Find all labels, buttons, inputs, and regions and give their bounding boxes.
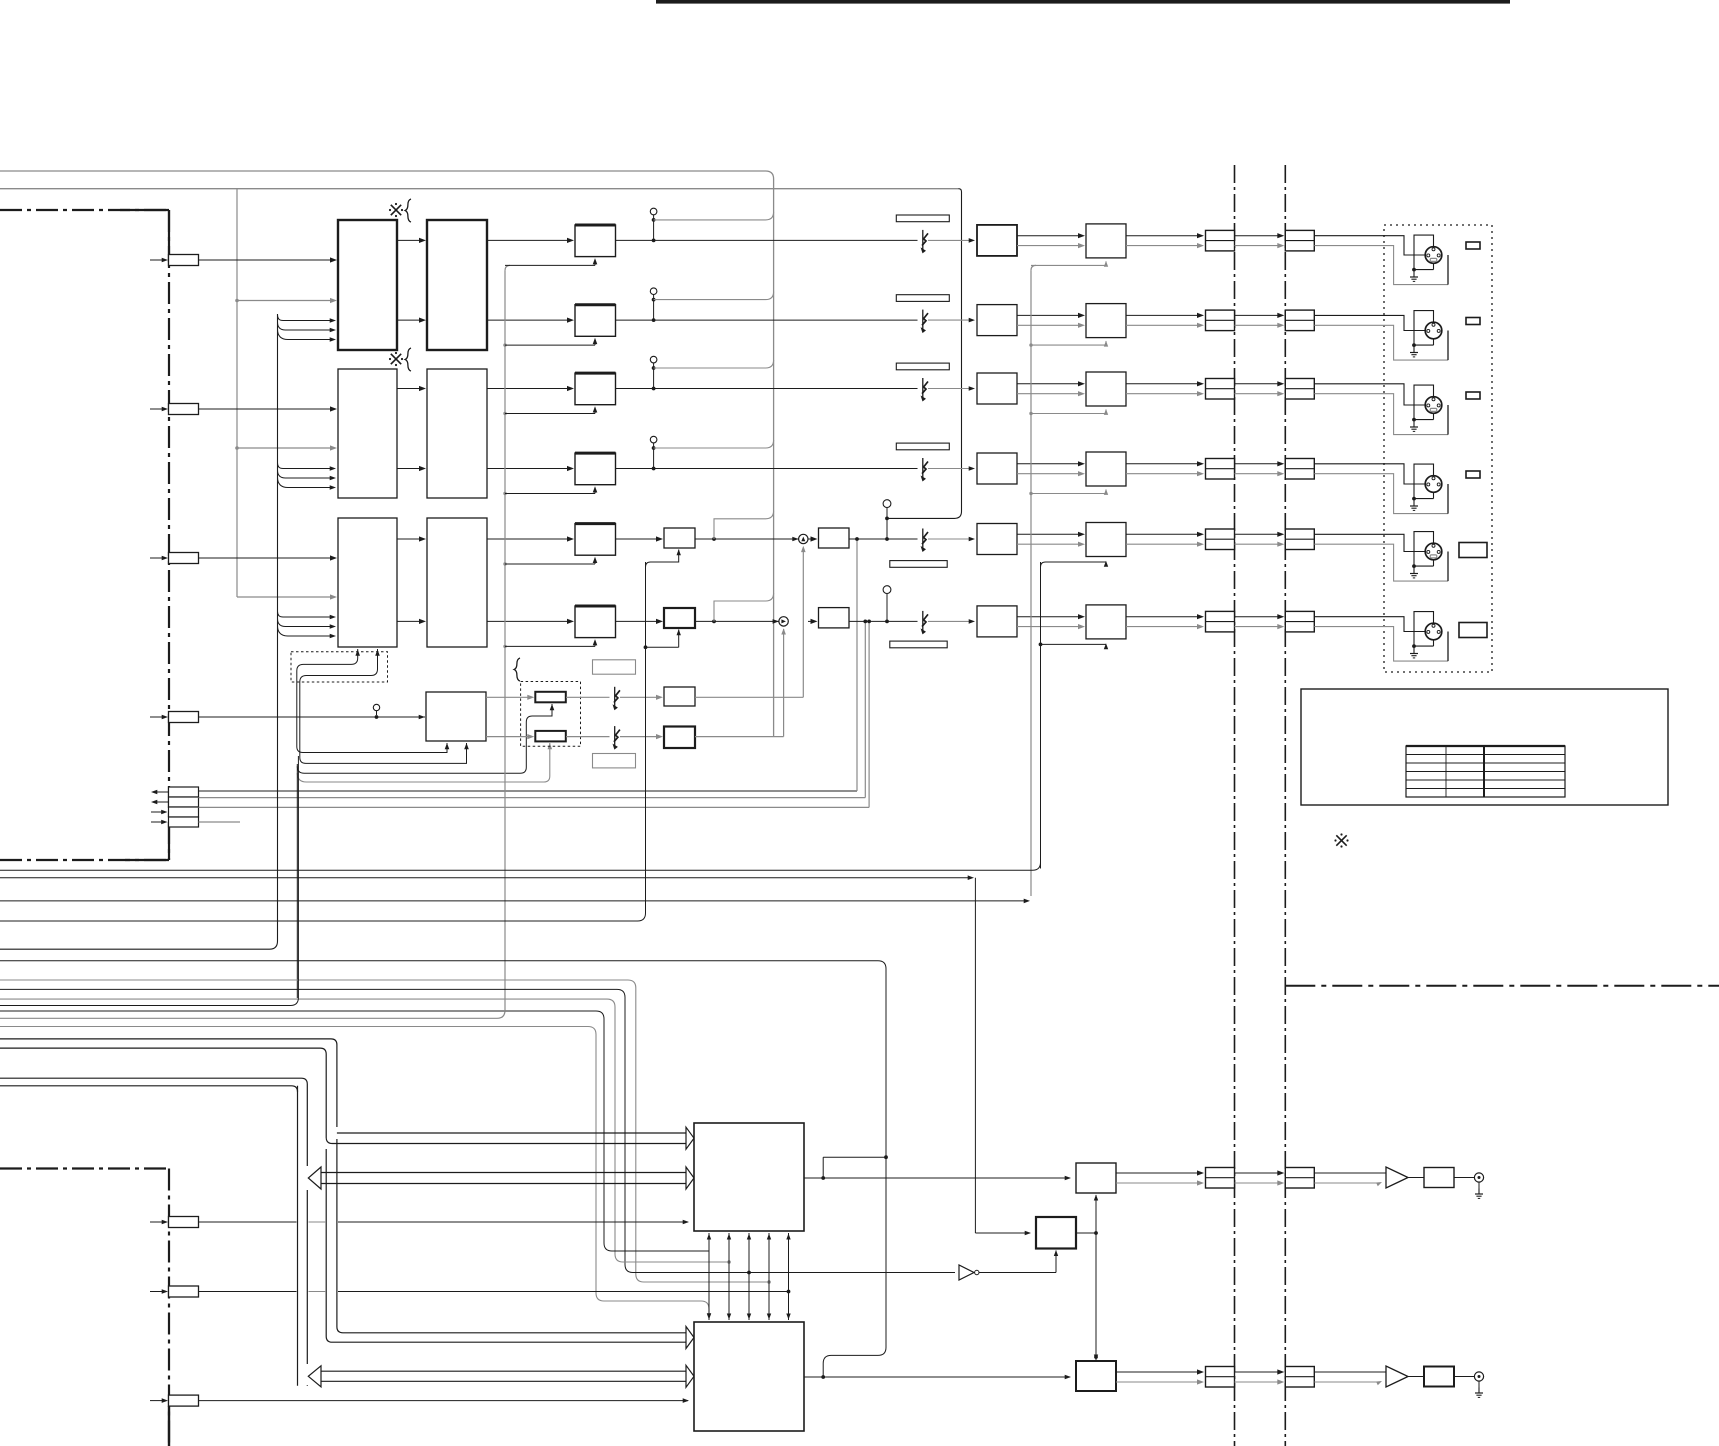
wire TP4 to monitor riser (gray)	[654, 440, 774, 448]
XLR connector J6	[1425, 623, 1442, 640]
wire XLR2 hookup	[1314, 315, 1448, 360]
wire XLR6 hookup	[1314, 617, 1448, 661]
digital out driver IC621	[1076, 1163, 1116, 1193]
wire control bus trunk	[0, 314, 278, 949]
wire to coax jack 1	[1454, 1177, 1475, 1179]
DSP IC601	[694, 1123, 804, 1231]
wire dig2 pair CN-CN	[1235, 1369, 1285, 1384]
wire row5 pair B-CN	[1126, 532, 1204, 547]
line amp IC411 row5	[615, 528, 695, 548]
wire row5 analog out	[849, 529, 975, 553]
feedthrough connector left row5	[1206, 529, 1235, 550]
wire gray drop to ADC inputs (x=237)	[236, 189, 238, 597]
wire data into IC562	[1039, 643, 1109, 650]
wire XLR4 hookup	[1314, 464, 1448, 514]
feedthrough connector left row3	[1206, 379, 1235, 400]
level pot RV2 (thick)	[535, 731, 566, 742]
connector pad CN7 (lower panel)	[150, 1286, 199, 1297]
attenuator pad label J2	[1466, 318, 1480, 325]
wire bus DAC data	[0, 562, 646, 921]
wire row1 pair CN-CN	[1235, 233, 1285, 248]
wire dig1 pair CN-CN	[1235, 1170, 1285, 1185]
wire CN3 to IC305	[199, 555, 338, 560]
wire XLR5 hookup	[1314, 534, 1448, 581]
wire TP2 to monitor riser (gray)	[654, 292, 774, 300]
notes box	[1301, 689, 1668, 805]
wire IC306 bottom pin A	[297, 649, 450, 753]
filter amp IC521 row2	[977, 305, 1017, 336]
DAC interface IC451 row5	[487, 524, 616, 556]
feedthrough connector right row5	[1285, 529, 1314, 550]
wire row3 pair A-B	[1017, 381, 1085, 396]
brace 3	[514, 658, 520, 681]
wire row1 analog out	[616, 230, 976, 254]
wire row1 pair B-CN	[1126, 233, 1204, 248]
delay label row4	[896, 443, 949, 450]
XLR connector J2	[1425, 322, 1442, 339]
wire CN4 to IC307	[199, 715, 426, 720]
DAC interface IC431 row3	[487, 373, 616, 405]
wire level feed to RV1	[297, 704, 554, 773]
attenuator pad label J4	[1466, 471, 1480, 478]
refmark 2	[389, 352, 403, 366]
summing node 2 (mix)	[779, 617, 788, 626]
wire serial data riser (rows 5/6)	[1040, 562, 1042, 869]
wide bus DSP1 bidir (lines)	[321, 1173, 686, 1184]
wire IC422 to node2 (gray)	[695, 628, 786, 736]
ground coax 2	[1475, 1381, 1483, 1397]
settings table	[1406, 746, 1565, 797]
XLR connector J5	[1425, 543, 1442, 560]
test point TP5	[883, 500, 891, 539]
feedthrough connector left row1	[1206, 230, 1235, 251]
wire dig2 pair to CN	[1116, 1369, 1204, 1384]
XLR connector J4	[1425, 476, 1442, 493]
wire DAC clock riser (gray)	[505, 265, 510, 1012]
wire clock into IC421	[503, 338, 597, 347]
lower panel boundary (dash-dot, vertical)	[168, 1169, 170, 1446]
wide bus P2 (right line)	[0, 1078, 307, 1386]
digital filter IC304	[427, 369, 487, 498]
coax jack J11	[1474, 1173, 1483, 1182]
delay label row3	[896, 363, 949, 370]
wire clock into IC451	[503, 557, 597, 566]
wire row4 pair B-CN	[1126, 461, 1204, 476]
wire control fan into box at y617	[278, 612, 337, 639]
output buffer IC413 row5	[808, 528, 849, 548]
wire control fan into box at y320	[278, 315, 337, 342]
feedthrough connector left row4	[1206, 459, 1235, 480]
line amp IC412 row6 (mute)	[615, 608, 695, 628]
wire row3 pair CN-CN	[1235, 381, 1285, 396]
feedthrough connector right row3	[1285, 379, 1314, 400]
arrow IC306 pin B	[375, 650, 380, 656]
wire clock into IC522	[1029, 341, 1108, 347]
left panel boundary (chassis dash-dot, top)	[0, 209, 168, 211]
wire row6 pair A-B	[1017, 614, 1085, 629]
balanced driver IC542 row4	[1086, 452, 1126, 486]
filter amp IC511 row1	[977, 225, 1017, 256]
wire IC307 out A (gray)	[486, 695, 534, 700]
balanced driver IC552 row5	[1086, 523, 1126, 557]
connector pad CN2 (left panel)	[150, 404, 199, 415]
delay label row2	[896, 295, 949, 302]
filter amp IC551 row5	[977, 524, 1017, 555]
wide bus arrow into DSP2 a	[686, 1327, 694, 1349]
wire mode to IC305 (gray)	[237, 594, 337, 599]
wire IC421 to node1 (gray)	[695, 546, 806, 698]
wire DSP1 alt route	[823, 1157, 886, 1178]
DAC interface IC421 row2	[487, 305, 616, 337]
connector pad CN1 (left panel)	[150, 255, 199, 266]
wire mute to driver2	[1094, 1233, 1098, 1361]
feedthrough connector right row2	[1285, 310, 1314, 331]
wire data into IC552	[1041, 561, 1109, 567]
delay label row6	[890, 641, 947, 648]
wire bus DSP data A	[0, 1011, 709, 1251]
brace 1	[405, 199, 411, 222]
title underline bar	[656, 0, 1510, 4]
wire bus digital select	[0, 961, 888, 1379]
wire DAC master clock (gray)	[1031, 265, 1036, 896]
connector pad CN6 (lower panel)	[150, 1217, 199, 1228]
feedthrough connector left row2	[1206, 310, 1235, 331]
wire mode to IC301 (gray)	[235, 298, 337, 303]
XLR panel (dotted box)	[1384, 225, 1492, 672]
wire row4 pair A-B	[1017, 461, 1085, 476]
feedthrough connector left row6	[1206, 611, 1235, 632]
connector pad CN8 (lower panel)	[150, 1395, 199, 1406]
DAC interface IC411 row1	[487, 225, 616, 257]
test point TP6	[883, 586, 891, 622]
wire row3 pair B-CN	[1126, 381, 1204, 396]
wire row5 tap to riser	[714, 511, 774, 539]
ground coax 1	[1475, 1182, 1483, 1198]
XLR connector J3	[1425, 397, 1442, 414]
wire clock into IC542	[1029, 489, 1108, 495]
wire clock to mute	[975, 1231, 1031, 1236]
wire bus DSP clock (gray, riser)	[0, 1010, 505, 1018]
wire CN5 return to row6 b (gray)	[199, 621, 870, 807]
wire row5 to summing node	[695, 537, 799, 542]
wire DSP1 digital out	[804, 1176, 1071, 1181]
feedthrough connector dig1 right	[1285, 1168, 1314, 1189]
ground XLR5	[1410, 532, 1434, 578]
balanced driver IC512 row1	[1086, 224, 1126, 258]
wire dig2 to buffer	[1314, 1372, 1386, 1385]
wire TP1 to monitor riser (gray)	[654, 212, 774, 220]
coax jack J12	[1474, 1372, 1483, 1381]
wire clock into IC411	[505, 258, 597, 265]
wire row2 analog out	[616, 310, 976, 334]
wire TP3 to monitor riser (gray)	[654, 360, 774, 368]
test point TP3	[650, 356, 657, 390]
test point TP2	[650, 288, 657, 322]
left panel boundary (chassis dash-dot, vertical)	[168, 210, 170, 860]
wire mute to driver1	[1094, 1195, 1098, 1234]
wire bus DAC clock	[0, 899, 1030, 904]
wire CN5 stub (gray)	[199, 821, 241, 823]
wire row6 to summing node	[695, 619, 779, 624]
feedthrough connector right row6	[1285, 611, 1314, 632]
refmark note	[1334, 833, 1348, 847]
attenuator pad label J6	[1459, 623, 1487, 638]
flex cable marker (dotted box 1)	[291, 652, 388, 682]
digital out driver IC622	[1076, 1361, 1116, 1391]
connector pad CN4 (left panel)	[150, 712, 199, 723]
wire CN1 to IC301	[199, 257, 338, 262]
brace 2	[405, 348, 411, 371]
filter amp IC541 row4	[977, 453, 1017, 484]
wire to coax jack 2	[1454, 1376, 1475, 1378]
wire buffer to pulse transformer	[1408, 1177, 1424, 1179]
wide bus P2 (left line)	[0, 1086, 298, 1386]
wire IC301-IC302 data	[397, 238, 426, 323]
wire bus SPDIF clock	[0, 875, 975, 1233]
wide bus arrow into DSP1	[686, 1127, 694, 1149]
digital filter IC306	[427, 518, 487, 647]
buffer amp Q62	[1386, 1366, 1408, 1387]
wide bus DSP2 bidir (lines)	[321, 1371, 686, 1381]
chassis solid corner top	[120, 210, 169, 262]
ground XLR1	[1410, 235, 1434, 281]
wire monitor bus 2 riser (black)	[887, 189, 962, 519]
filter amp IC561 row6	[977, 606, 1017, 637]
wire bundle riser to bus	[296, 764, 298, 998]
wire RV1 to IC421 (gray)	[566, 687, 663, 711]
wire XLR1 hookup	[1314, 236, 1448, 285]
delay label row5	[890, 561, 947, 568]
A/D converter IC303	[338, 369, 397, 498]
A/D converter IC305	[338, 518, 397, 647]
wire row1 pair A-B	[1017, 233, 1085, 248]
wire RV2 to IC422 (gray)	[566, 726, 663, 750]
ground XLR3	[1410, 385, 1434, 431]
wire row2 pair B-CN	[1126, 313, 1204, 328]
wire clock into IC512	[1031, 261, 1108, 267]
ground XLR4	[1410, 464, 1434, 510]
monitor amp IC422 (thick)	[664, 727, 695, 749]
buffer amp Q61	[1386, 1167, 1408, 1188]
wire CN2 to IC303	[199, 406, 338, 411]
lower panel boundary (dash-dot, horizontal)	[0, 1167, 169, 1169]
wire IC412 mix feed	[644, 629, 681, 649]
wire bus LRCK	[0, 562, 1041, 870]
balanced driver IC522 row2	[1086, 304, 1126, 338]
wire row5 pair CN-CN	[1235, 532, 1285, 547]
delay label row1	[896, 215, 949, 222]
wire IC305-IC306 data	[397, 536, 426, 624]
left panel boundary (chassis dash-dot, bottom)	[0, 859, 168, 861]
board boundary dash-dot vertical 2	[1284, 165, 1286, 1446]
output buffer IC414 row6	[808, 608, 849, 628]
wire mute out	[1076, 1231, 1098, 1235]
wide bus P1 (outer line)	[0, 1039, 686, 1333]
attenuator pad label J3	[1466, 392, 1480, 399]
wire CN5 return to row5	[199, 539, 858, 791]
wire DSP interconnect bus	[707, 1233, 791, 1320]
mute switch IC611 (thick)	[1036, 1217, 1076, 1249]
wire CN5 return to row6 a (gray)	[199, 621, 866, 797]
balanced driver IC562 row6	[1086, 605, 1126, 639]
wire control fan into box at y468	[278, 463, 337, 490]
wire dig1 pair to CN	[1116, 1170, 1204, 1185]
feedthrough connector dig2 left	[1206, 1367, 1235, 1388]
DAC interface IC441 row4	[487, 453, 616, 485]
wide bus DSP1 bidir arrows	[308, 1167, 694, 1189]
wire row3 analog out	[616, 378, 976, 402]
feedthrough connector right row1	[1285, 230, 1314, 251]
wide bus P1 (inner line)	[0, 1048, 686, 1342]
DAC interface IC461 row6	[487, 606, 616, 638]
wire row4 analog out	[616, 458, 976, 482]
DSP IC602	[694, 1322, 804, 1431]
filter amp IC531 row3	[977, 373, 1017, 404]
wire monitor bus 2 (gray)	[0, 188, 959, 190]
wire CN7 to interconnect	[199, 1290, 791, 1294]
flex cable marker (dotted box 2)	[521, 682, 581, 747]
wire dig1 to buffer	[1314, 1173, 1386, 1186]
wire row6 pair CN-CN	[1235, 614, 1285, 629]
refmark 1	[389, 203, 403, 217]
wire row2 pair A-B	[1017, 313, 1085, 328]
ground XLR2	[1410, 311, 1434, 357]
wire inverter out	[979, 1250, 1058, 1273]
summing node 1 (mix)	[799, 534, 808, 543]
connector pad CN3 (left panel)	[150, 553, 199, 564]
sample rate converter IC307	[426, 692, 486, 741]
pulse transformer T62	[1424, 1367, 1454, 1387]
lower panel solid stub below CN pad	[168, 1406, 170, 1446]
pot label B	[593, 754, 636, 768]
wire mode to IC303 (gray)	[235, 445, 337, 450]
wire clock into IC431	[503, 406, 597, 415]
wire clock into IC441	[503, 486, 597, 495]
wire CN8 to DSP2	[199, 1398, 690, 1403]
feedthrough connector dig2 right	[1285, 1367, 1314, 1388]
wire level feed to RV2 (gray)	[297, 743, 552, 782]
wire clock into IC461	[503, 639, 597, 648]
board boundary dash-dot horizontal (right)	[1285, 985, 1719, 987]
wide bus DSP2 bidir arrows	[308, 1365, 694, 1387]
arrow IC306 pin A	[355, 650, 360, 656]
pot label A	[593, 660, 636, 674]
ground XLR6	[1410, 612, 1434, 658]
wire row4 pair CN-CN	[1235, 461, 1285, 476]
pulse transformer T61	[1424, 1168, 1454, 1188]
wire row5 pair A-B	[1017, 532, 1085, 547]
feedthrough connector right row4	[1285, 459, 1314, 480]
attenuator pad label J1	[1466, 242, 1480, 249]
wire clock into IC532	[1029, 409, 1108, 415]
wire monitor bus 1 (gray, to test-point riser)	[0, 171, 774, 737]
feedthrough connector dig1 left	[1206, 1168, 1235, 1189]
inverter IC612	[959, 1265, 979, 1280]
wire bus status (gray)	[0, 999, 731, 1264]
wire row2 pair CN-CN	[1235, 313, 1285, 328]
wire row6 pair B-CN	[1126, 614, 1204, 629]
wire bus mute control	[0, 989, 955, 1274]
wire DSP2 digital out	[804, 1375, 1071, 1380]
wire IC306 bottom pin B	[300, 649, 469, 763]
test point TP1	[650, 208, 657, 242]
wire bus DSP data B (gray)	[0, 1027, 711, 1320]
wire row6 analog out	[849, 611, 975, 635]
level pot RV1 (thick)	[535, 692, 566, 703]
wire CN6 to DSP1	[199, 1220, 690, 1225]
XLR connector J1	[1425, 247, 1442, 264]
board boundary dash-dot vertical 1	[1234, 165, 1236, 1446]
wire IC411 mix feed	[646, 549, 681, 567]
wire IC307 out B (gray)	[486, 734, 534, 739]
wire IC303-IC304 data	[397, 386, 426, 471]
wire row6 tap to riser	[714, 593, 774, 621]
test point TP7	[373, 704, 379, 715]
test point TP4	[650, 436, 657, 470]
wire bus control up (to trunk)	[0, 756, 298, 1006]
A/D converter IC301 (thick)	[338, 220, 397, 350]
wire bus word sync (gray)	[0, 980, 771, 1284]
attenuator pad label J5	[1459, 543, 1487, 558]
wire buffer to pulse transformer	[1408, 1376, 1424, 1378]
wire XLR3 hookup	[1314, 384, 1448, 435]
monitor amp IC421	[664, 687, 695, 706]
digital filter IC302 (thick)	[427, 220, 487, 350]
chassis solid corner bottom	[125, 822, 169, 860]
connector pad CN5 (4-pin stack)	[151, 787, 199, 827]
balanced driver IC532 row3	[1086, 372, 1126, 406]
